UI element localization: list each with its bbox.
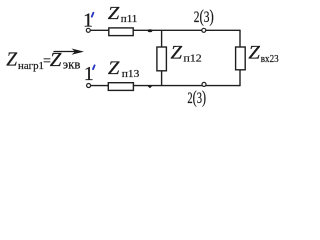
svg-text:Z: Z [108,59,120,79]
svg-text:п12: п12 [184,53,202,65]
label Z_nagr1 = Z_ekv [6,49,80,72]
impedance Z_p13 label [108,59,140,80]
impedance Z_p12 body [157,47,167,71]
impedance Z_p13 body [108,83,133,91]
impedance Z_p11 label [108,3,138,25]
node 2(3) top label [194,6,214,26]
svg-text:нагр1: нагр1 [18,60,44,72]
junction dot top node [148,29,153,32]
svg-text:вх23: вх23 [261,54,279,65]
svg-text:Z: Z [108,3,120,23]
node 2(3) bottom circle [202,82,206,86]
junction dot bottom node [147,85,153,88]
node 2(3) bottom label [187,87,206,108]
svg-text:1: 1 [83,10,93,32]
wire right vertical rise bottom [239,70,241,86]
terminal 1' bottom label [84,63,95,85]
impedance Z_vx23 label [248,44,278,65]
impedance Z_vx23 body [236,47,246,70]
svg-text:экв: экв [63,57,81,72]
svg-text:Z: Z [171,43,183,63]
terminal 1' top circle [86,28,90,32]
svg-text:2(3): 2(3) [187,87,206,108]
node 2(3) top circle [202,28,206,32]
svg-text:1: 1 [84,63,94,85]
impedance Z_p12 label [171,43,202,64]
svg-text:Z: Z [6,49,18,71]
impedance Z_p11 body [109,28,133,36]
wire top horizontal [91,29,241,31]
svg-text:Z: Z [248,44,260,64]
svg-text:2(3): 2(3) [194,6,214,26]
terminal 1' bottom circle [87,84,91,88]
svg-text:Z: Z [50,49,63,71]
wire right vertical drop top [239,30,241,47]
arrow over Z_ekv [54,49,85,55]
wire bottom horizontal [91,85,240,87]
wire middle vertical lead top [161,30,163,47]
svg-text:п11: п11 [121,14,138,25]
wire middle vertical lead bottom [161,71,163,86]
terminal 1' top label [83,10,93,32]
svg-text:п13: п13 [122,69,140,80]
